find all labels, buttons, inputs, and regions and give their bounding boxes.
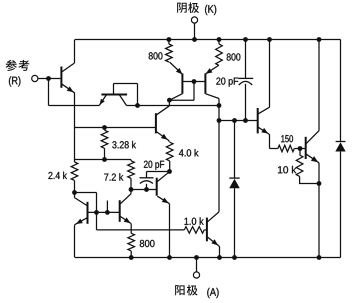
wire Q2 emitter bbox=[99, 95, 106, 105]
wire center vertical bbox=[218, 106, 220, 212]
transistor Q6 base bar bbox=[181, 73, 183, 93]
transistor Q7 base bar bbox=[204, 73, 206, 93]
resistor R1 2.4k bbox=[71, 162, 78, 193]
wire Q1 emitter bbox=[62, 84, 75, 93]
node top rail 800 left bbox=[167, 37, 172, 42]
transistor Q9 base bar bbox=[305, 137, 307, 159]
wire Q3 collector bbox=[157, 106, 170, 115]
wire REF to Q1 base bbox=[49, 78, 61, 80]
wire Q4 base loop bbox=[75, 193, 97, 213]
wire right rail upper segment bbox=[340, 40, 342, 142]
terminal A anode bbox=[193, 272, 199, 278]
capacitor C1 20pF bbox=[238, 78, 253, 85]
wire Q4 Q10 base wire bbox=[88, 211, 120, 213]
node Q2 loop junction bbox=[135, 103, 140, 108]
transistor Q2 base bar bbox=[101, 94, 127, 96]
wire D1 cathode lead bbox=[234, 121, 236, 179]
transistor Q1 base bar bbox=[60, 67, 62, 88]
node top rail C1 bbox=[243, 37, 248, 42]
wire Q7 emitter bbox=[206, 66, 219, 74]
node 2.4k bottom junction bbox=[72, 190, 77, 195]
wire Q2 base loop bbox=[114, 84, 138, 106]
node base wire junction B bbox=[105, 210, 110, 215]
label 3.28 k bbox=[112, 141, 136, 148]
wire Q6 emitter bbox=[170, 62, 183, 74]
node bottom rail Q8 emitter bbox=[167, 255, 172, 260]
label 4.0 k bbox=[179, 149, 199, 156]
wire Q8 base wire bbox=[131, 189, 157, 191]
transistor Q4 base bar bbox=[87, 202, 89, 224]
wire Q5 base wire bbox=[219, 120, 258, 122]
label anode 阳极 (A) bbox=[175, 285, 218, 298]
diode D2 bbox=[335, 142, 345, 152]
wire Q10 collector bbox=[120, 190, 131, 204]
node 10k bottom junction bbox=[317, 181, 322, 186]
wire mid node horizontal bbox=[127, 105, 220, 107]
wire Q5 emitter bbox=[258, 127, 269, 148]
wire right rail lower segment bbox=[340, 152, 342, 258]
wire bottom anode rail bbox=[75, 257, 341, 259]
wire C1 bottom lead bbox=[245, 84, 247, 121]
node top rail K terminal bbox=[192, 37, 197, 42]
wire Q4 collector bbox=[75, 193, 88, 206]
node 3.28k bottom junction bbox=[102, 157, 107, 162]
label 1.0 k bbox=[185, 217, 204, 224]
wire Q11 collector bbox=[208, 212, 220, 222]
label reference 参考 (R) bbox=[6, 60, 30, 87]
label 7.2 k bbox=[104, 173, 123, 180]
resistor R9 800 bottom bbox=[128, 233, 135, 257]
node C2 bottom junction bbox=[144, 187, 149, 192]
wire divider tap left bbox=[75, 159, 105, 161]
node mid right junction bbox=[217, 103, 222, 108]
wire Q11 emitter bbox=[208, 237, 220, 257]
wire C2 top wire bbox=[147, 171, 170, 173]
diode D1 bbox=[229, 178, 240, 188]
label 800 left bbox=[149, 52, 163, 59]
wire 150 left lead bbox=[270, 148, 278, 150]
node top rail Q5 collector bbox=[267, 37, 272, 42]
node center tap junction bbox=[217, 118, 222, 123]
label cathode 阴极 (K) bbox=[177, 2, 216, 15]
node base tie junction bbox=[192, 79, 197, 84]
wire Q9 emitter bbox=[306, 154, 319, 257]
wire Q7 collector bbox=[205, 94, 219, 106]
resistor R2 3.28k bbox=[101, 128, 108, 160]
wire A terminal lead bbox=[196, 258, 198, 272]
terminal K cathode bbox=[191, 17, 197, 23]
resistor R10 1.0k bbox=[184, 227, 207, 234]
resistor R6 150 bbox=[278, 145, 306, 152]
label 2.4 k bbox=[48, 172, 67, 179]
node mirror junction bbox=[167, 98, 172, 103]
node A rail junction bbox=[194, 255, 199, 260]
wire Q3 emitter bbox=[157, 132, 170, 142]
node bottom rail Q11 emitter bbox=[217, 255, 222, 260]
label 150 bbox=[281, 135, 293, 142]
node bottom rail Q9 emitter bbox=[317, 255, 322, 260]
wire Q8 collector bbox=[157, 172, 169, 182]
node top rail 800 right bbox=[217, 37, 222, 42]
wire base tie down leg bbox=[169, 82, 194, 101]
node bottom rail D1 bbox=[232, 255, 237, 260]
label 800 bottom bbox=[140, 240, 155, 247]
wire Q8 emitter bbox=[157, 196, 169, 257]
wire REF horizontal to Q2 emitter bbox=[49, 105, 100, 107]
node 4.0k bottom junction bbox=[167, 169, 172, 174]
label 20 pF right bbox=[216, 77, 238, 86]
wire left column bbox=[74, 92, 76, 162]
wire top cathode rail bbox=[75, 39, 341, 41]
transistor Q8 base bar bbox=[156, 178, 158, 196]
label 800 right bbox=[227, 53, 241, 60]
transistor Q10 base bar bbox=[119, 200, 121, 222]
wire Q1 collector bbox=[62, 40, 75, 72]
wire Q3 base wire bbox=[75, 127, 156, 129]
resistor R3 7.2k bbox=[128, 160, 135, 190]
node diode column junction bbox=[232, 118, 237, 123]
wire Q4 emitter bbox=[75, 218, 88, 258]
wire 1.0k feed bbox=[97, 212, 185, 230]
wire D1 anode lead bbox=[234, 188, 236, 257]
wire divider tap right bbox=[105, 159, 132, 161]
wire mirror node stub bbox=[168, 100, 170, 105]
wire Q6 Q7 base tie bbox=[182, 81, 205, 83]
node top rail Q9 collector bbox=[317, 37, 322, 42]
wire Q5 collector bbox=[258, 40, 269, 114]
wire Q9 collector bbox=[306, 40, 319, 144]
node base wire junction A bbox=[94, 210, 99, 215]
resistor R5 800 right bbox=[216, 40, 223, 66]
wire Q10 emitter bbox=[120, 216, 131, 233]
node REF junction bbox=[46, 76, 51, 81]
wire R terminal lead bbox=[38, 78, 49, 80]
resistor R4 800 left bbox=[166, 40, 173, 63]
transistor Q5 base bar bbox=[257, 108, 259, 133]
capacitor C2 20pF bbox=[140, 172, 154, 190]
label 10 k bbox=[278, 166, 296, 173]
transistor Q11 base bar bbox=[206, 218, 208, 242]
wire K terminal lead bbox=[194, 23, 196, 39]
node 7.2k bottom junction bbox=[129, 187, 134, 192]
wire C1 top lead bbox=[245, 40, 247, 79]
resistor R7 10k bbox=[296, 149, 319, 184]
label 20 pF left bbox=[144, 161, 164, 170]
transistor Q3 base bar bbox=[155, 113, 157, 133]
node cap column junction bbox=[243, 118, 248, 123]
node 10k top junction bbox=[298, 146, 303, 151]
wire REF down leg bbox=[48, 79, 50, 106]
resistor R8 4.0k bbox=[166, 142, 173, 171]
wire Q2 collector bbox=[120, 95, 127, 105]
node bottom rail 800 bottom bbox=[129, 255, 134, 260]
terminal R reference bbox=[32, 75, 38, 81]
wire 3.28k column lower stub bbox=[106, 201, 108, 213]
wire Q6 collector bbox=[169, 94, 182, 101]
node 3.28k top junction bbox=[102, 125, 107, 130]
